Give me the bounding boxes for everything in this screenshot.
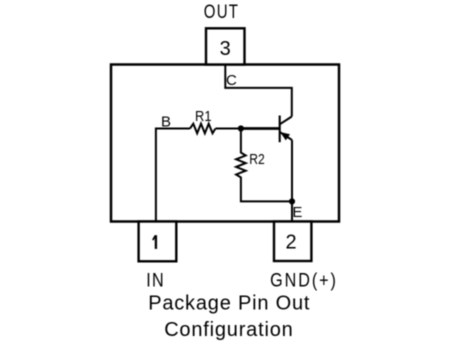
svg-text:IN: IN xyxy=(146,269,165,291)
svg-text:R2: R2 xyxy=(249,151,264,168)
svg-text:E: E xyxy=(292,204,302,221)
svg-text:R1: R1 xyxy=(195,108,212,125)
svg-text:2: 2 xyxy=(285,232,296,254)
svg-text:Configuration: Configuration xyxy=(164,319,293,341)
svg-text:GND(+): GND(+) xyxy=(270,269,338,291)
svg-text:3: 3 xyxy=(220,38,231,60)
svg-text:B: B xyxy=(161,113,171,130)
svg-text:Package Pin Out: Package Pin Out xyxy=(148,293,310,315)
svg-text:OUT: OUT xyxy=(204,1,239,22)
svg-text:C: C xyxy=(226,72,237,89)
